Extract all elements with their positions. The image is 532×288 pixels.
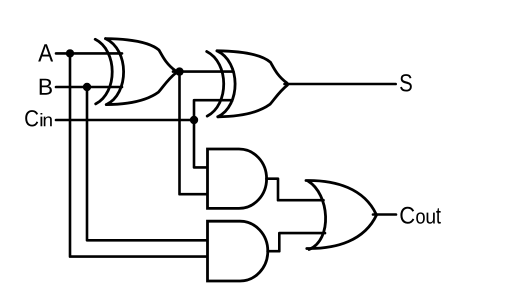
xor-gate U2 (P XOR Cin) body [207,51,288,117]
label A [38,44,53,61]
wire P branch down to AND1 lower input [180,72,208,195]
and-gate U4 (A AND B) [208,221,268,281]
wire XOR1 output to XOR2 upper input [173,70,234,73]
wire Cin branch to XOR2 lower input and AND1 upper input [194,100,234,167]
junction dot on Cin [190,116,198,124]
wire A input [56,52,122,55]
label S [400,74,412,91]
label Cout [400,207,414,224]
wire Cin input [56,119,194,122]
label Cin [25,110,38,126]
xor-gate U1 extra input arc [95,39,112,104]
and-gate U3 (P AND Cin) [208,149,267,208]
wire AND2 output to OR lower input [268,233,325,251]
junction dot on XOR1 output node P [175,67,183,75]
wire B input [56,86,122,89]
junction dot on B [83,83,91,91]
wire Cout output [373,213,396,216]
wire S output [285,83,396,86]
wire AND1 output to OR upper input [266,179,323,201]
xor-gate U1 (A XOR B) body [95,39,176,105]
or-gate U5 (carry out) [306,180,377,249]
label B [40,79,52,95]
wire B branch down to AND2 upper input [87,87,208,240]
junction dot on A [66,49,74,57]
wire A branch down to AND2 lower input [70,53,208,256]
xor-gate U2 extra input arc [207,52,224,117]
